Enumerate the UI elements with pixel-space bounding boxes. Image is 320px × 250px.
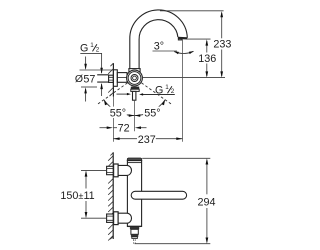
svg-text:72: 72	[118, 123, 130, 135]
svg-text:Ø: Ø	[75, 73, 83, 85]
svg-text:294: 294	[198, 197, 216, 209]
svg-text:2: 2	[171, 88, 175, 95]
svg-text:57: 57	[83, 73, 95, 85]
svg-text:3°: 3°	[154, 41, 164, 53]
svg-text:G: G	[155, 84, 163, 96]
svg-text:237: 237	[138, 134, 156, 146]
svg-text:55°: 55°	[110, 107, 126, 119]
svg-text:1: 1	[165, 84, 169, 91]
svg-text:150±11: 150±11	[60, 190, 94, 202]
svg-text:55°: 55°	[144, 107, 160, 119]
svg-text:2: 2	[96, 46, 100, 53]
svg-text:1: 1	[90, 42, 94, 49]
svg-text:136: 136	[198, 53, 216, 65]
svg-text:233: 233	[213, 39, 231, 51]
svg-text:G: G	[80, 42, 88, 54]
